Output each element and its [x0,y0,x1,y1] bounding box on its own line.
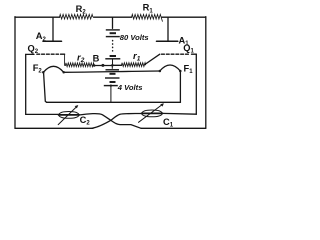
wire 80V battery top lead [112,17,114,28]
resistor r2 [65,54,95,67]
node dot r2-B rail [93,64,96,67]
wire right border [205,17,207,129]
dotted cell continuation [112,41,114,54]
wire Q1 dashed line [162,53,191,55]
wire left border [14,17,16,129]
wire A2 drop from top rail [52,17,54,41]
capacitor C2 adjusting arrow [58,106,77,125]
wire bowtie lower-left from bottom rail to crossing [92,120,111,128]
junction dots [42,64,182,109]
wire switch diagonal r1 to Q1 dashes [145,54,160,64]
wire bowtie upper-left from C2 to crossing [79,114,111,121]
wire top rail right segment [162,16,206,18]
battery 80 Volts cells [105,30,120,65]
svg-text:80 Volts: 80 Volts [120,33,149,42]
wire inner bottom rail [47,101,181,103]
wire inner-right vertical [195,54,197,114]
capacitor C2 lens body [59,112,80,119]
node dot F1 right [179,70,182,73]
node dot battery-B rail [111,64,114,67]
wire F2 drop to inner bottom rail [44,73,47,102]
resistor R1 [132,14,163,21]
node A2 terminal bar [43,40,62,42]
wire top rail left segment [15,16,60,18]
wire A1 drop from top rail [167,17,169,40]
wire bottom rail right [141,127,206,129]
wire F1 arc [160,65,181,71]
wire B rail battery to r1 [113,64,122,66]
capacitor C1 lens body [142,110,163,117]
node dot B rail right of B [101,64,104,67]
resistor R2 [60,14,93,19]
node dot F2 left [42,71,45,74]
wire C1 lens middle line [142,112,163,114]
wire bowtie lower-right from crossing to bottom rail [111,120,141,128]
wire 4V battery top lead [111,65,113,69]
svg-text:B: B [93,54,100,64]
wire Q2 dash-end solid corner into B rail [61,53,65,55]
wire Q2 dashed line [37,53,59,55]
svg-text:4 Volts: 4 Volts [117,83,143,92]
wire Q1 dash-end solid corner [192,53,197,55]
wire B rail from r2 to battery [93,65,112,67]
wire bowtie upper-right from crossing to C1 [111,114,142,121]
wire bottom rail left [15,127,93,129]
wire top rail mid segment [94,16,132,18]
node A1 terminal bar [157,40,178,42]
wire F line from F2 right dot to F1 left dot (passes battery) [64,71,160,72]
capacitor C2 arrowhead [75,105,79,108]
node dot 4V battery bottom junction [110,85,112,87]
wire F1 drop to inner bottom rail [179,72,181,103]
capacitor C1 adjusting arrow [139,104,163,122]
node dot F1 left [159,70,162,73]
resistor r1 [122,63,146,67]
wire 4V battery bottom lead [110,86,112,103]
wire Q2 solid stub from inner-left vertical [26,53,34,55]
wire F2 arc [43,66,63,72]
battery 4 Volts cells [104,65,120,102]
wire 80V battery bottom lead [112,59,114,65]
wire C2 lens middle line [59,114,80,116]
wire C2 rail from inner-left corner [26,113,59,115]
capacitor C1 arrowhead [160,103,164,106]
wire C1 rail to inner-right corner [163,112,197,115]
node dot F2 right [62,71,64,74]
wire inner-left vertical [25,54,27,114]
